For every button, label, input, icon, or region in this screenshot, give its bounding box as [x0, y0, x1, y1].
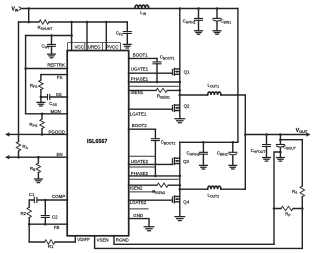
wire: RA bottom to EN: [18, 151, 20, 157]
ground (CF2): [123, 44, 131, 48]
svg-text:FB: FB: [54, 225, 60, 230]
pin wire BOOT2: [129, 128, 156, 130]
svg-text:R2: R2: [21, 211, 27, 216]
junction: C2-COMP: [44, 199, 47, 202]
resistor RISEN1: [156, 88, 167, 92]
wire: R2 bottom lead: [28, 218, 30, 225]
pin wire EN: [9, 156, 68, 158]
capacitor CHFIN1: [195, 9, 203, 31]
pin wire PHASE1: [129, 81, 180, 83]
wire: RGND jog: [274, 152, 280, 244]
wire: RFS bottom to SS node: [40, 90, 42, 97]
pin wire LGATE2: [129, 199, 173, 201]
ground (CBIN2): [229, 165, 237, 169]
junction: RISEN2-phase node: [179, 184, 182, 187]
resistor RA: [16, 142, 20, 152]
junction: CBIN2 tap: [232, 141, 235, 144]
junction: CBOUT tap: [279, 133, 282, 136]
resistor RS: [300, 186, 304, 197]
svg-text:C1: C1: [29, 192, 35, 197]
resistor RB: [36, 163, 40, 173]
junction: VIN terminal node: [27, 7, 30, 10]
wire: ISEN2 box line: [129, 178, 179, 180]
pin wire PGOOD: [9, 133, 68, 135]
pin wire UGATE2: [129, 163, 173, 165]
junction: RP-RGND: [273, 207, 276, 210]
svg-text:RGND: RGND: [116, 238, 129, 243]
wire: R2 top lead: [28, 200, 30, 207]
ground (SS): [37, 102, 45, 106]
wire: C2 top lead: [44, 200, 46, 215]
wire: VOUT rail: [245, 134, 307, 136]
pin wire SS with CSS: [41, 96, 68, 98]
resistor RPG: [40, 119, 44, 129]
ground (CHV): [48, 54, 56, 58]
ground (Q4 source): [175, 217, 185, 221]
wire: Q3 drain vertical: [179, 142, 181, 216]
wire: UREG pin drop: [86, 22, 88, 51]
junction: REFTRK-left loop: [24, 67, 27, 70]
capacitor C1: [34, 197, 37, 202]
wire: LOUT2 row: [180, 188, 246, 190]
ground (CHFIN1): [195, 31, 203, 35]
capacitor CBIN2 polarized: [229, 142, 237, 165]
svg-text:R1: R1: [48, 244, 54, 249]
IC U1 ISL6567 body: [67, 51, 129, 236]
junction: CHV tap: [50, 34, 53, 37]
wire: PHASE2 box line: [129, 166, 156, 168]
junction: CHFOUT tap: [265, 133, 268, 136]
svg-text:LGATE1: LGATE1: [130, 111, 147, 116]
wire: left loop vertical REFTRK/MON: [25, 36, 27, 114]
wire: RB top lead: [37, 157, 39, 163]
pin wire FB: [29, 223, 67, 225]
junction: RPG-PGOOD: [41, 133, 44, 136]
wire: R1 row: [29, 241, 75, 243]
resistor RP: [281, 206, 293, 210]
wire: left VIN vertical to RA: [18, 22, 20, 142]
wire: LOUT2 up to VOUT rail: [244, 135, 246, 190]
ground (Q2 source): [175, 119, 185, 123]
svg-text:UGATE2: UGATE2: [131, 159, 149, 164]
junction: CHFIN2 tap: [202, 141, 205, 144]
wire: RS branch row: [280, 139, 302, 141]
wire: C2 bottom lead: [44, 218, 46, 225]
junction: RPG top: [41, 113, 44, 116]
wire: VIN top rail: [22, 8, 238, 10]
capacitor CBOUT polarized: [276, 135, 284, 158]
junction: SS/RFS ground node: [40, 96, 43, 99]
wire: FB down to R1: [28, 224, 30, 242]
svg-text:PGOOD: PGOOD: [48, 129, 64, 134]
resistor R1: [45, 240, 55, 244]
pin wire BOOT1: [129, 57, 158, 59]
pin wire VSEN remote sense: [95, 209, 303, 249]
junction: LOUT-VOUT: [244, 133, 247, 136]
junction: RB-EN: [37, 156, 40, 159]
resistor RSHUNT: [39, 20, 49, 24]
svg-text:VCC: VCC: [75, 44, 84, 49]
svg-text:COMP: COMP: [52, 194, 65, 199]
wire: phase2 VIN branch row: [180, 141, 238, 143]
node VOUT arrow: [306, 132, 310, 136]
svg-text:VSEN: VSEN: [97, 238, 109, 243]
wire: RS bottom lead: [301, 197, 303, 209]
capacitor C2: [41, 216, 49, 218]
ground (CBOUT): [277, 158, 285, 162]
svg-text:SS: SS: [56, 92, 62, 97]
junction: R2-FB: [28, 223, 31, 226]
svg-text:FS: FS: [57, 75, 63, 80]
capacitor CSS: [48, 94, 50, 99]
junction: UREG tap: [86, 21, 89, 24]
wire: UGATE2 box line: [129, 155, 156, 157]
pin wire VDIFF stub: [74, 236, 76, 242]
capacitor CBIN1 polarized: [213, 9, 221, 31]
junction: CBOOT2-PHASE2: [154, 175, 157, 178]
junction: LOUT1-phase: [179, 94, 182, 97]
wire: PVCC pin drop: [105, 22, 107, 51]
pin wire UGATE1: [129, 72, 173, 74]
wire: RS top lead: [301, 140, 303, 186]
svg-text:Q4: Q4: [183, 199, 189, 204]
junction: RA-EN: [17, 156, 20, 159]
inductor LOUT2: [208, 186, 221, 189]
pin wire PHASE2: [129, 175, 180, 177]
svg-text:ISL6567: ISL6567: [87, 139, 107, 145]
resistor R2: [27, 207, 31, 217]
svg-text:ISEN2: ISEN2: [130, 185, 143, 190]
junction: CBIN1 tap: [216, 7, 219, 10]
wire: RB to ground: [37, 173, 39, 179]
capacitor CHFOUT: [263, 135, 271, 158]
capacitor CBOOT2: [151, 129, 159, 176]
svg-text:PHASE2: PHASE2: [131, 171, 149, 176]
node EN arrow: [5, 155, 9, 159]
wire: Q1 drain vertical: [179, 9, 181, 119]
resistor RFS: [39, 80, 43, 90]
capacitor CHV: [48, 36, 56, 54]
svg-text:BOOT2: BOOT2: [132, 123, 147, 128]
svg-text:BOOT1: BOOT1: [133, 53, 148, 58]
capacitor CHFIN2: [199, 142, 207, 165]
ground (CBIN1): [213, 31, 221, 35]
junction: LOUT2-phase: [179, 188, 182, 191]
junction: VCC tap: [70, 21, 73, 24]
wire: RSHUNT rail y22: [19, 21, 128, 23]
svg-text:UREG: UREG: [88, 44, 101, 49]
wire: GND box line: [129, 208, 149, 210]
transistor Q4: [172, 196, 179, 203]
wire: RP row: [274, 208, 302, 210]
transistor Q1: [172, 68, 179, 75]
svg-text:LGATE2: LGATE2: [130, 200, 147, 205]
transistor Q2: [172, 105, 179, 112]
svg-text:REFTRK: REFTRK: [47, 63, 65, 68]
pin wire MON: [26, 113, 68, 115]
wire: LOUT1 down to VOUT rail: [244, 95, 246, 135]
ground (CHFIN2): [200, 165, 208, 169]
svg-text:UGATE1: UGATE1: [131, 67, 149, 72]
pin wire LGATE1: [129, 108, 173, 110]
junction: C2-FB: [44, 223, 47, 226]
pin wire ISEN1: [129, 89, 180, 91]
svg-text:PVCC: PVCC: [106, 44, 118, 49]
pin wire ISEN2: [129, 184, 180, 186]
svg-text:MON: MON: [51, 109, 61, 114]
wire: LOUT1 row: [180, 94, 246, 96]
pin wire FS: [41, 74, 68, 76]
ground (GND pin): [144, 227, 154, 231]
svg-text:Q2: Q2: [184, 104, 190, 109]
svg-text:ISEN1: ISEN1: [131, 90, 144, 95]
svg-text:EN: EN: [56, 152, 62, 157]
node PGOOD arrow: [5, 132, 9, 136]
junction: PHASE1 node: [179, 81, 182, 84]
pin wire GND: [129, 219, 150, 227]
wire: CHV branch y35.5: [26, 35, 72, 37]
junction: VCC-CHV: [70, 34, 73, 37]
node VIN input terminal: [19, 7, 21, 10]
svg-text:Q1: Q1: [184, 69, 190, 74]
svg-text:Q3: Q3: [183, 159, 189, 164]
svg-text:PHASE1: PHASE1: [131, 76, 149, 81]
capacitor CF2: [123, 32, 131, 44]
wire: CF2 lead from rail: [126, 22, 128, 31]
svg-text:GND: GND: [133, 213, 143, 218]
junction: CBOOT1-PHASE1: [156, 81, 159, 84]
resistor RISEN2: [157, 183, 168, 187]
junction: RP-RS-VSEN: [301, 207, 304, 210]
capacitor CBOOT1: [153, 58, 161, 82]
junction: Q1 drain tap: [179, 7, 182, 10]
junction: PVCC tap: [105, 21, 108, 24]
svg-text:VDIFF: VDIFF: [77, 237, 90, 242]
junction: RISEN1-phase node: [179, 89, 182, 92]
wire: VCC pin drop: [71, 22, 73, 51]
wire: VIN rail right drop: [237, 9, 239, 143]
wire: ISEN1 box line: [129, 85, 179, 87]
junction: CHFIN1 tap: [197, 7, 200, 10]
svg-text:C2: C2: [52, 215, 58, 220]
ground (RB): [35, 179, 43, 183]
junction: PHASE2 node: [179, 175, 182, 178]
wire: LGATE2 box line: [129, 191, 156, 193]
wire: RPG top lead: [41, 114, 43, 119]
junction: RS branch on CBOUT lead: [279, 138, 282, 141]
wire: RPG bottom lead: [41, 129, 43, 135]
wire: to ground: [40, 97, 42, 102]
pin wire RGND remote ground: [114, 236, 274, 244]
pin wire COMP with C1: [29, 199, 67, 201]
IC top pin boxes VCC UREG PVCC: [68, 43, 121, 50]
wire: VIN drop to RSHUNT rail: [28, 9, 30, 23]
inductor LOUT1: [208, 92, 221, 95]
inductor LIN: [135, 5, 149, 8]
junction: RGND sense tap on CBOUT: [279, 151, 282, 154]
transistor Q3: [172, 158, 179, 165]
ground (CHFOUT): [263, 158, 271, 162]
junction: rail-VIN: [27, 21, 30, 24]
wire: FS to RFS: [40, 75, 42, 81]
pin wire REFTRK: [26, 68, 68, 70]
